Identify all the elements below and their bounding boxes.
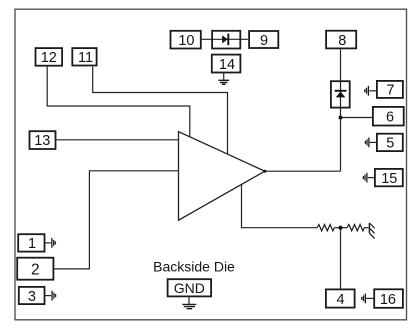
ground left of pin 5 [365,138,376,148]
ground right of pin 1 [45,238,56,248]
ground left of pin 7 [365,86,376,96]
wire op-amp output [265,170,341,172]
diode D2 box [331,81,350,107]
pin 11 [72,48,96,66]
svg-text:7: 7 [386,82,394,98]
svg-text:14: 14 [219,57,235,73]
wire through diode D2 box [340,82,342,108]
pin 15 [375,169,403,187]
pin 9 [249,31,278,49]
svg-text:Backside Die: Backside Die [153,259,235,275]
diode D2 [335,91,347,98]
wire from pin 13 to op-amp left edge [56,139,179,141]
resistor R1 [317,225,334,231]
pin 8 [326,31,356,49]
wire pin 8 down through diode D2 to output net [340,49,342,171]
svg-text:16: 16 [380,292,396,308]
wire op-amp bottom tap to resistor R1 [242,185,318,228]
wire pin 10 to pin 9 through diode D1 [202,38,249,40]
pin 13 [30,131,56,149]
svg-text:11: 11 [78,50,93,66]
pin 4 [326,289,355,308]
svg-text:GND: GND [174,280,205,296]
svg-text:15: 15 [381,171,397,187]
diode D1 [222,34,228,46]
svg-text:4: 4 [337,292,345,308]
wire junction to pin 4 [340,228,342,289]
junction dot at resistor node [338,226,342,230]
pin 14 [212,55,241,73]
ground right of pin 3 [45,291,56,301]
svg-text:5: 5 [386,136,394,152]
pin 16 [374,289,403,308]
pin 3 [19,287,45,305]
junction dot at diode output / pin 6 [339,116,343,120]
wire junction to pin 6 [341,117,373,119]
svg-text:8: 8 [338,33,346,49]
wire R2 to chassis ground [364,227,369,229]
svg-text:1: 1 [28,236,36,252]
svg-text:9: 9 [260,33,268,49]
chassis ground at resistor end [369,223,374,239]
wire through diode D1 box [213,38,240,40]
diode D1 box [212,31,240,49]
wire from pin 12 to op-amp top edge [47,67,190,138]
ground below GND box [182,297,196,308]
op-amp U1 [179,132,265,221]
ground left of pin 16 [362,294,374,304]
svg-text:2: 2 [31,262,40,279]
svg-text:3: 3 [28,289,36,305]
svg-text:12: 12 [41,50,57,66]
wire from pin 2 to op-amp left edge [54,171,179,269]
pin 10 [171,31,201,49]
label Backside Die [153,259,235,275]
pin 5 [377,134,403,152]
svg-text:10: 10 [178,33,194,49]
junction dot at op-amp output apex [263,170,266,173]
wire R1 to R2 through junction [334,227,347,229]
pin 1 [18,234,44,252]
ground left of pin 15 [363,173,374,183]
pin 2 [17,258,53,280]
resistor R2 [347,225,364,231]
wire from pin 11 to op-amp top edge [93,67,228,155]
ground below pin 14 [218,73,229,84]
pin 6 [373,107,404,126]
node GND backside die [168,279,212,296]
svg-text:13: 13 [34,133,50,149]
svg-text:6: 6 [386,110,394,126]
pin 7 [377,81,403,98]
pin 12 [36,48,63,66]
